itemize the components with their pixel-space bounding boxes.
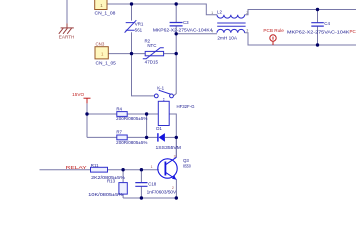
svg-text:PC: PC xyxy=(350,29,356,34)
svg-text:C3: C3 xyxy=(183,20,189,25)
svg-text:1: 1 xyxy=(211,11,213,15)
svg-text:3: 3 xyxy=(174,155,176,159)
svg-text:MKP62-X2-275VAC-104K: MKP62-X2-275VAC-104K xyxy=(287,30,350,35)
svg-text:47D15: 47D15 xyxy=(145,60,159,65)
svg-text:MKP62-X2-275VAC-104K4: MKP62-X2-275VAC-104K4 xyxy=(153,28,213,33)
svg-text:R4: R4 xyxy=(116,106,122,111)
svg-text:2: 2 xyxy=(246,11,248,15)
svg-text:R13: R13 xyxy=(107,178,116,183)
svg-text:C4: C4 xyxy=(324,21,330,26)
svg-text:PCB Rule: PCB Rule xyxy=(263,28,284,33)
svg-text:C18: C18 xyxy=(148,182,157,187)
svg-text:15VO: 15VO xyxy=(72,92,85,97)
svg-text:8550: 8550 xyxy=(183,163,191,168)
svg-text:200R/0805±5%: 200R/0805±5% xyxy=(116,116,147,121)
svg-text:200R/0805±5%: 200R/0805±5% xyxy=(116,140,147,145)
svg-text:R7: R7 xyxy=(116,130,122,135)
svg-text:4: 4 xyxy=(211,29,213,33)
svg-text:1: 1 xyxy=(151,165,153,169)
svg-text:RELAY: RELAY xyxy=(66,165,87,170)
svg-text:CN_1_05: CN_1_05 xyxy=(96,60,117,65)
svg-text:CN3: CN3 xyxy=(96,42,105,47)
svg-text:1SS355VM: 1SS355VM xyxy=(156,145,182,150)
svg-text:D1: D1 xyxy=(156,126,162,131)
svg-text:K-1: K-1 xyxy=(157,85,164,90)
svg-text:HF32F-G: HF32F-G xyxy=(177,104,196,109)
svg-text:VR1: VR1 xyxy=(135,21,144,26)
svg-text:10K/0805±5%: 10K/0805±5% xyxy=(88,192,123,197)
svg-text:L2: L2 xyxy=(217,10,222,15)
svg-text:NTC: NTC xyxy=(147,43,156,48)
svg-text:EARTH: EARTH xyxy=(59,35,75,40)
svg-text:R11: R11 xyxy=(91,163,99,168)
svg-text:561: 561 xyxy=(135,28,143,33)
svg-text:CN_1_08: CN_1_08 xyxy=(95,10,117,15)
svg-text:3: 3 xyxy=(246,29,248,33)
svg-text:2mH 10A: 2mH 10A xyxy=(217,35,237,40)
svg-text:2: 2 xyxy=(172,186,174,190)
